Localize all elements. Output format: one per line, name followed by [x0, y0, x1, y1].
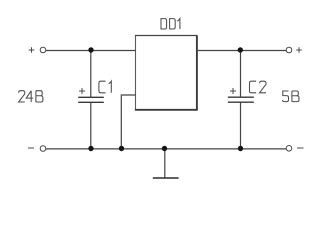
capacitor C2 — [228, 97, 254, 102]
wire DD1 ground pin — [121, 95, 135, 149]
node junction bottom C1 — [88, 146, 93, 151]
wire ground lead — [164, 149, 166, 178]
wire C1 lower lead — [90, 102, 92, 149]
polarity plus of C1 — [79, 88, 85, 94]
wire C2 lower lead — [240, 102, 242, 149]
wire C1 upper lead — [90, 51, 92, 98]
IC DD1 voltage regulator body — [135, 36, 198, 111]
net label 5V output — [283, 91, 300, 102]
minus sign input — [28, 147, 34, 149]
polarity plus of C2 — [230, 88, 236, 94]
node junction top C2 — [238, 47, 243, 52]
node junction bottom ground — [162, 146, 167, 151]
plus sign input — [29, 47, 35, 53]
terminal input minus — [40, 146, 46, 152]
ground — [153, 177, 179, 179]
node junction bottom C2 — [238, 146, 243, 151]
plus sign output — [296, 47, 302, 53]
terminal output plus — [286, 47, 292, 53]
node junction bottom DD1 ground pin — [119, 146, 124, 151]
node junction top C1 — [88, 47, 93, 52]
wire top-left rail — [46, 50, 136, 52]
wire bottom rail — [46, 148, 287, 150]
net label 24V input — [19, 91, 43, 102]
value label C1 — [99, 81, 111, 93]
minus sign output — [297, 147, 304, 149]
terminal output minus — [286, 146, 292, 152]
capacitor C1 — [78, 97, 104, 102]
terminal input plus — [40, 47, 46, 53]
wire C2 upper lead — [240, 51, 242, 98]
value label DD1 — [161, 19, 180, 29]
value label C2 — [250, 81, 267, 93]
wire top-right rail — [197, 50, 287, 52]
